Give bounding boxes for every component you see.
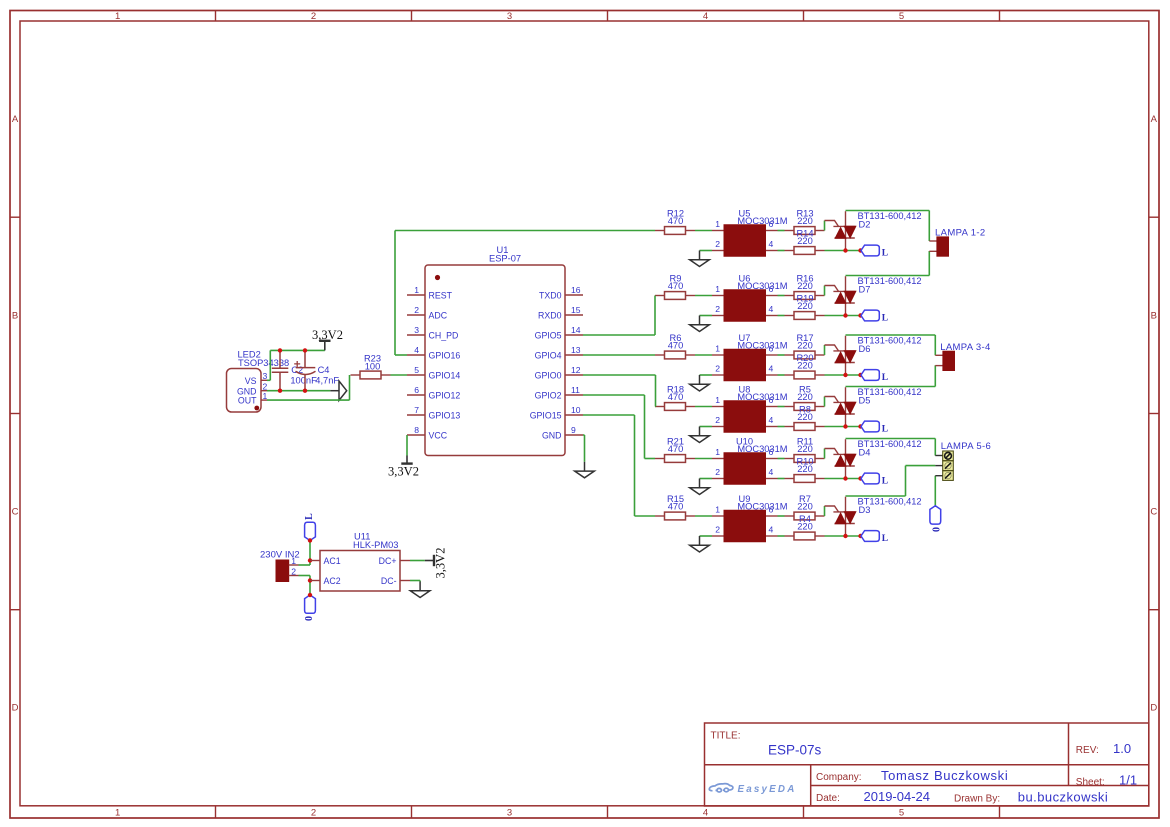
net port L (861, 310, 879, 321)
U1 pin 1 REST (407, 294, 425, 296)
resistor R10 220 (785, 475, 825, 483)
border column tick marks bottom (215, 806, 217, 818)
svg-text:1: 1 (715, 219, 720, 229)
svg-text:2: 2 (414, 305, 419, 315)
svg-text:470: 470 (668, 341, 684, 351)
LED2 pin-1 marker dot (254, 406, 259, 411)
wire pin6 to gate resistor (778, 458, 785, 460)
svg-text:1: 1 (263, 391, 268, 401)
svg-text:L: L (882, 477, 888, 487)
svg-text:ADC: ADC (429, 311, 448, 321)
svg-text:Sheet:: Sheet: (1076, 777, 1105, 788)
net port L above AC1 (305, 522, 316, 540)
wire DC+ to 3,3V2 flag (410, 560, 425, 562)
U1 pin 14 GPIO5 (565, 334, 583, 336)
svg-text:4: 4 (414, 345, 419, 355)
svg-text:Date:: Date: (816, 793, 840, 804)
U1 pin 12 GPIO0 (565, 374, 583, 376)
svg-text:ESP-07: ESP-07 (489, 254, 521, 264)
svg-text:11: 11 (571, 385, 580, 395)
junction dots around U11 input (308, 538, 312, 542)
wire (695, 515, 712, 517)
svg-text:TITLE:: TITLE: (711, 730, 741, 741)
svg-text:D7: D7 (859, 285, 871, 295)
wire gate riser (824, 345, 826, 355)
svg-text:C: C (1150, 507, 1157, 518)
svg-text:B: B (1151, 310, 1157, 321)
svg-text:GPIO15: GPIO15 (530, 411, 562, 421)
svg-text:2019-04-24: 2019-04-24 (864, 789, 931, 804)
svg-text:7: 7 (414, 405, 419, 415)
wire MT1 rail to net port (825, 250, 861, 252)
svg-text:220: 220 (797, 216, 813, 226)
opto-coupler U9 MOC3031M (712, 510, 778, 542)
U1 pin 7 GPIO13 (407, 414, 425, 416)
svg-text:L: L (882, 425, 888, 435)
triac D2 BT131-600,412 (825, 211, 856, 250)
resistor R9 470 (655, 292, 695, 300)
svg-text:LAMPA 1-2: LAMPA 1-2 (935, 227, 986, 238)
svg-text:3: 3 (414, 325, 419, 335)
svg-text:3: 3 (263, 371, 268, 381)
U11 pin AC2 (310, 580, 320, 582)
svg-text:0: 0 (931, 527, 942, 532)
ground symbol below pin 9 (575, 462, 595, 478)
U1 pin 4 GPIO16 (407, 354, 425, 356)
svg-text:12: 12 (571, 365, 581, 375)
wire 3,3V2 top rail (270, 349, 325, 351)
svg-text:2: 2 (715, 363, 720, 373)
svg-text:3: 3 (507, 11, 512, 22)
wire gate riser (824, 506, 826, 516)
svg-text:5: 5 (899, 807, 904, 818)
svg-text:1: 1 (715, 504, 720, 514)
U1 pin 5 GPIO14 (407, 374, 425, 376)
svg-text:220: 220 (797, 341, 813, 351)
svg-text:4: 4 (769, 239, 774, 249)
power net label 3,3V2 right of DC+ (433, 548, 447, 579)
svg-text:ESP-07s: ESP-07s (768, 742, 822, 757)
svg-text:Tomasz Buczkowski: Tomasz Buczkowski (881, 768, 1008, 783)
junction node at L port (858, 424, 862, 428)
svg-text:2: 2 (715, 239, 720, 249)
U11 pin AC1 (310, 560, 320, 562)
svg-text:6: 6 (769, 395, 774, 405)
resistor R5 220 (785, 403, 825, 411)
wire GND bottom rail (267, 390, 330, 392)
wire D3 MT2 to LAMPA 5-6 pin 2 (846, 495, 906, 497)
ground below U9 pin 2 (690, 536, 710, 552)
svg-text:3,3V2: 3,3V2 (388, 465, 419, 479)
wire pin2 to ground (700, 478, 713, 480)
ground below DC- (410, 582, 430, 598)
svg-text:6: 6 (769, 284, 774, 294)
U1 pin 2 ADC (407, 314, 425, 316)
wire GPIO16 pin 4 feed (long top wire to R12) (395, 354, 407, 356)
resistor R12 470 (655, 227, 695, 235)
wire OUT pin to R23 (267, 399, 350, 401)
resistor R16 220 (785, 292, 825, 300)
connector LAMPA 1-2 (929, 237, 948, 256)
wire VCC pin 8 to power flag (406, 435, 408, 456)
resistor R19 220 (785, 312, 825, 320)
triac D6 BT131-600,412 (825, 336, 856, 375)
svg-text:GPIO2: GPIO2 (535, 391, 562, 401)
svg-text:CH_PD: CH_PD (429, 331, 459, 341)
power flag 3,3V2 above rail (319, 341, 330, 351)
resistor R23 (351, 371, 391, 379)
svg-text:4: 4 (769, 304, 774, 314)
wire MT1 rail to net port (825, 478, 861, 480)
svg-text:GPIO13: GPIO13 (429, 411, 461, 421)
svg-text:5: 5 (414, 365, 419, 375)
wire pin6 to gate resistor (778, 515, 785, 517)
junction node at L port (858, 534, 862, 538)
svg-text:470: 470 (668, 502, 684, 512)
svg-text:MOC3031M: MOC3031M (737, 281, 787, 291)
connector 230V IN2 (276, 560, 289, 582)
triac D7 BT131-600,412 (825, 276, 856, 315)
ground arrow right of GND rail (330, 381, 346, 400)
svg-text:220: 220 (797, 281, 813, 291)
svg-text:3,3V2: 3,3V2 (312, 328, 343, 342)
net port L (861, 245, 879, 256)
svg-text:220: 220 (797, 444, 813, 454)
svg-text:220: 220 (797, 236, 813, 246)
svg-text:220: 220 (797, 361, 813, 371)
wire D5 MT2 to LAMPA 3-4 pin 2 (846, 386, 936, 388)
svg-text:1.0: 1.0 (1113, 741, 1131, 756)
wire (695, 295, 712, 297)
svg-text:14: 14 (571, 325, 581, 335)
connector LAMPA 5-6 screw terminal (935, 451, 953, 480)
svg-text:D2: D2 (859, 220, 871, 230)
junction node at L port (858, 476, 862, 480)
svg-text:6: 6 (769, 219, 774, 229)
svg-text:0: 0 (304, 616, 315, 621)
svg-text:GPIO14: GPIO14 (429, 371, 461, 381)
ground below U8 pin 2 (690, 427, 710, 443)
junction node at triac MT1 (843, 313, 847, 317)
resistor R8 220 (785, 423, 825, 431)
net port L (861, 370, 879, 381)
svg-text:2: 2 (291, 566, 296, 576)
svg-text:4: 4 (769, 415, 774, 425)
wire pin2 to ground (700, 426, 713, 428)
svg-text:GPIO4: GPIO4 (535, 351, 562, 361)
svg-text:1: 1 (414, 285, 419, 295)
svg-text:5: 5 (899, 11, 904, 22)
net port 0 below AC2 (305, 595, 316, 613)
svg-text:220: 220 (797, 522, 813, 532)
svg-text:1: 1 (715, 284, 720, 294)
svg-text:D: D (12, 703, 19, 714)
opto-coupler U6 MOC3031M (712, 290, 778, 322)
svg-text:D5: D5 (859, 396, 871, 406)
wire MT1 rail to net port (825, 315, 861, 317)
svg-text:HLK-PM03: HLK-PM03 (353, 540, 398, 550)
svg-text:2: 2 (715, 467, 720, 477)
LED2 pin 2 GND (261, 390, 267, 392)
svg-text:13: 13 (571, 345, 581, 355)
svg-text:9: 9 (571, 425, 576, 435)
border row tick marks right (1149, 216, 1159, 218)
svg-text:TXD0: TXD0 (539, 291, 562, 301)
svg-text:C4: C4 (318, 365, 330, 375)
svg-text:DC-: DC- (381, 576, 397, 586)
wire pin6 to gate resistor (778, 230, 785, 232)
resistor R14 220 (785, 247, 825, 255)
svg-text:TSOP34338: TSOP34338 (238, 358, 289, 368)
svg-text:Drawn By:: Drawn By: (954, 794, 1000, 805)
svg-text:RXD0: RXD0 (538, 311, 562, 321)
svg-text:L: L (882, 314, 888, 324)
junction node at triac MT1 (843, 476, 847, 480)
triac D3 BT131-600,412 (825, 497, 856, 536)
U1 pin 9 GND (565, 434, 583, 436)
U1 pin 13 GPIO4 (565, 354, 583, 356)
wire pin4 to lamp resistor (778, 374, 785, 376)
wire D7 MT2 to LAMPA 1-2 pin 2 (846, 275, 930, 277)
wire pin6 to gate resistor (778, 295, 785, 297)
svg-text:MOC3031M: MOC3031M (737, 216, 787, 226)
svg-text:OUT: OUT (238, 396, 257, 406)
wire gate riser (824, 449, 826, 459)
svg-text:3: 3 (507, 807, 512, 818)
svg-text:A: A (12, 114, 19, 125)
resistor R17 220 (785, 351, 825, 359)
svg-text:bu.buczkowski: bu.buczkowski (1018, 789, 1108, 804)
U1 pin 10 GPIO15 (565, 414, 583, 416)
op-amp/IC U1 ESP-07 outline (425, 265, 565, 456)
border column tick marks top (215, 11, 217, 22)
ground below U5 pin 2 (690, 251, 710, 267)
ground below U6 pin 2 (690, 316, 710, 332)
wire GPIO15 pin 10 to R15 (583, 414, 635, 416)
svg-text:3,3V2: 3,3V2 (433, 548, 447, 579)
svg-text:2: 2 (715, 304, 720, 314)
svg-text:6: 6 (769, 504, 774, 514)
wire 230V pin 1 to AC1 (299, 564, 311, 566)
resistor R20 220 (785, 371, 825, 379)
wire pin2 to ground (700, 535, 713, 537)
junction node at triac MT1 (843, 373, 847, 377)
svg-text:C: C (12, 507, 19, 518)
svg-text:470: 470 (668, 216, 684, 226)
svg-text:2: 2 (311, 807, 316, 818)
svg-text:DC+: DC+ (379, 556, 397, 566)
triac D5 BT131-600,412 (825, 387, 856, 426)
svg-text:10: 10 (571, 405, 581, 415)
svg-text:Company:: Company: (816, 772, 862, 783)
LED2 pin 1 OUT (261, 399, 267, 401)
power module U11 HLK-PM03 (320, 551, 400, 592)
wire pin2 to ground (700, 374, 713, 376)
svg-text:6: 6 (769, 343, 774, 353)
wire MT1 rail to net port (825, 374, 861, 376)
wire gate riser (824, 286, 826, 296)
wire D2 MT2 to LAMPA 1-2 pin 1 (846, 210, 930, 212)
wire (695, 458, 712, 460)
junction node at L port (858, 248, 862, 252)
svg-text:1: 1 (115, 807, 120, 818)
svg-text:4: 4 (703, 11, 708, 22)
U1 pin 3 CH_PD (407, 334, 425, 336)
svg-text:AC2: AC2 (324, 576, 341, 586)
svg-text:L: L (882, 249, 888, 259)
wire L port to AC1 (309, 541, 311, 561)
wire gate riser (824, 221, 826, 231)
svg-text:2: 2 (715, 524, 720, 534)
svg-text:EasyEDA: EasyEDA (738, 784, 797, 795)
junction node at triac MT1 (843, 248, 847, 252)
capacitor C4 (polarized) (294, 350, 315, 390)
svg-text:2: 2 (715, 415, 720, 425)
wire DC- to ground (410, 580, 420, 582)
svg-text:D3: D3 (859, 505, 871, 515)
svg-text:MOC3031M: MOC3031M (737, 444, 787, 454)
svg-text:A: A (1151, 114, 1158, 125)
svg-text:4: 4 (703, 807, 708, 818)
net port L (861, 421, 879, 432)
LED2 pin 3 VS (261, 379, 267, 381)
wire pin6 to gate resistor (778, 406, 785, 408)
wire pin4 to lamp resistor (778, 426, 785, 428)
svg-text:MOC3031M: MOC3031M (737, 341, 787, 351)
wire pin4 to lamp resistor (778, 535, 785, 537)
svg-text:220: 220 (797, 502, 813, 512)
svg-text:8: 8 (414, 425, 419, 435)
svg-text:220: 220 (797, 392, 813, 402)
svg-text:VS: VS (245, 376, 257, 386)
wire R23 to GPIO14 pin 5 (391, 374, 408, 376)
wire MT1 rail to net port (825, 426, 861, 428)
wire D6 MT2 to LAMPA 3-4 pin 1 (846, 334, 936, 336)
svg-text:230V IN2: 230V IN2 (260, 550, 300, 561)
svg-text:220: 220 (797, 301, 813, 311)
svg-text:4: 4 (769, 467, 774, 477)
junction node at L port (858, 313, 862, 317)
triac D4 BT131-600,412 (825, 439, 856, 478)
svg-text:GND: GND (542, 431, 562, 441)
junction node at triac MT1 (843, 534, 847, 538)
resistor R18 470 (655, 403, 695, 411)
svg-text:GPIO0: GPIO0 (535, 371, 562, 381)
svg-text:L: L (882, 373, 888, 383)
svg-text:1: 1 (715, 343, 720, 353)
resistor R4 220 (785, 532, 825, 540)
opto-coupler U10 MOC3031M (712, 453, 778, 485)
wire (695, 230, 712, 232)
svg-text:GPIO5: GPIO5 (535, 331, 562, 341)
resistor R6 470 (655, 351, 695, 359)
svg-text:LAMPA 5-6: LAMPA 5-6 (941, 441, 992, 452)
wire pin6 to gate resistor (778, 354, 785, 356)
wire GPIO4 pin 13 to R6 (583, 354, 655, 356)
resistor R21 470 (655, 455, 695, 463)
U1 pin 11 GPIO2 (565, 394, 583, 396)
U1 pin 6 GPIO12 (407, 394, 425, 396)
net port L (861, 531, 879, 542)
net port L (861, 473, 879, 484)
opto-coupler U8 MOC3031M (712, 401, 778, 433)
wire GPIO5 pin 14 to R9 (583, 334, 655, 336)
svg-text:100: 100 (365, 362, 381, 372)
svg-text:B: B (12, 310, 18, 321)
svg-text:REV:: REV: (1076, 745, 1099, 756)
border row tick marks left (10, 216, 20, 218)
resistor R13 220 (785, 227, 825, 235)
junction node at triac MT1 (843, 424, 847, 428)
svg-text:VCC: VCC (429, 431, 448, 441)
U11 pin DC- (400, 580, 410, 582)
svg-text:4,7nF: 4,7nF (315, 375, 339, 385)
wire pin2 to ground (700, 315, 713, 317)
wire pin4 to lamp resistor (778, 315, 785, 317)
U1 first-pin marker dot (435, 275, 440, 280)
svg-text:470: 470 (668, 392, 684, 402)
wire GPIO2 pin 11 to R21 (583, 394, 645, 396)
opto-coupler U5 MOC3031M (712, 225, 778, 257)
svg-text:100nF: 100nF (290, 375, 317, 385)
title block outline (705, 723, 1149, 806)
U1 pin 8 VCC (407, 434, 425, 436)
svg-text:220: 220 (797, 412, 813, 422)
wire AC2 to net 0 port (309, 581, 311, 596)
svg-text:MOC3031M: MOC3031M (737, 392, 787, 402)
svg-text:REST: REST (429, 291, 453, 301)
svg-text:1/1: 1/1 (1119, 772, 1137, 787)
svg-text:15: 15 (571, 305, 581, 315)
svg-text:AC1: AC1 (324, 556, 341, 566)
svg-text:16: 16 (571, 285, 581, 295)
svg-text:1: 1 (115, 11, 120, 22)
wire MT1 rail to net port (825, 535, 861, 537)
svg-text:470: 470 (668, 444, 684, 454)
svg-text:4: 4 (769, 524, 774, 534)
resistor R15 470 (655, 512, 695, 520)
wire pin2 to ground (700, 250, 713, 252)
svg-text:D4: D4 (859, 448, 871, 458)
svg-text:MOC3031M: MOC3031M (737, 502, 787, 512)
U1 pin 15 RXD0 (565, 314, 583, 316)
wire gate riser (824, 397, 826, 407)
svg-text:L: L (304, 513, 315, 520)
wire pin4 to lamp resistor (778, 250, 785, 252)
svg-text:D6: D6 (859, 344, 871, 354)
wire (695, 406, 712, 408)
wire 230V pin 2 to AC2 (299, 575, 311, 577)
svg-text:470: 470 (668, 281, 684, 291)
svg-text:6: 6 (414, 385, 419, 395)
wire pin4 to lamp resistor (778, 478, 785, 480)
svg-text:2: 2 (311, 11, 316, 22)
ground below U10 pin 2 (690, 479, 710, 495)
svg-text:1: 1 (715, 395, 720, 405)
net port 0 below LAMPA 5-6 (930, 506, 941, 524)
svg-text:GPIO16: GPIO16 (429, 351, 461, 361)
svg-text:1: 1 (715, 447, 720, 457)
wire D4 MT2 to LAMPA 5-6 pin 1 (846, 438, 936, 440)
svg-text:220: 220 (797, 464, 813, 474)
svg-text:GPIO12: GPIO12 (429, 391, 461, 401)
svg-text:LAMPA 3-4: LAMPA 3-4 (940, 342, 991, 353)
resistor R7 220 (785, 512, 825, 520)
capacitor C2 (272, 350, 289, 390)
junction node at L port (858, 373, 862, 377)
U1 pin 16 TXD0 (565, 294, 583, 296)
IR receiver LED2 TSOP34338 outline (227, 369, 262, 413)
